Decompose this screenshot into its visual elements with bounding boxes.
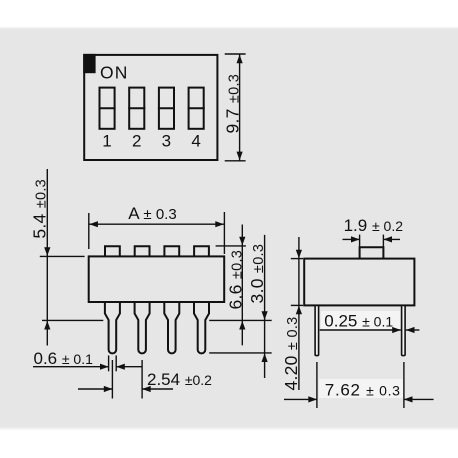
dim 2.54 line right part <box>142 388 173 390</box>
dim 1.9 line left part <box>343 238 360 240</box>
dim 7.62 line left part <box>284 398 317 400</box>
arrow 0.6 right (left-pointing) <box>116 364 125 370</box>
top view: switch 4 <box>189 88 204 129</box>
svg-text:1.9 ± 0.2: 1.9 ± 0.2 <box>344 216 404 235</box>
svg-text:3: 3 <box>162 132 171 151</box>
dim A extension right <box>223 212 225 254</box>
arrow 9.7 bottom (down) <box>237 152 243 161</box>
arrow 2.54 right (left-pointing) <box>142 386 151 392</box>
top view: DIP switch outline <box>84 55 217 160</box>
top view: switch 2 <box>129 88 144 129</box>
dim 0.6 extension right (pin1 right edge) <box>115 355 117 371</box>
dim 2.54 extension left (pin1 center) <box>111 360 113 399</box>
dim A extension left <box>88 213 90 249</box>
dim 0.25 line <box>320 329 401 331</box>
dim 3.0 line <box>264 235 266 378</box>
pin tip level extension right <box>209 352 272 354</box>
dim 1.9 extension right <box>382 235 384 247</box>
dim 7.62 line right part <box>404 398 434 400</box>
front view: pin 4 <box>194 303 209 354</box>
arrow A left <box>89 221 98 227</box>
front view: actuator bump 3 <box>164 246 179 256</box>
arrow 4.20 top (down, at body top) <box>296 250 302 259</box>
svg-text:A ± 0.3: A ± 0.3 <box>128 204 176 223</box>
dim 2.54 extension right (pin2 center) <box>141 360 143 399</box>
arrow 5.4 bottom (up, at seating) <box>44 321 50 330</box>
svg-text:ON: ON <box>100 63 128 83</box>
dim 6.6 extension (actuator top level) <box>216 245 246 247</box>
top view: switch 4 midline <box>188 107 205 109</box>
dim 4.20 extension top <box>291 258 303 260</box>
dim 7.62 extension left (pin center) <box>316 362 318 408</box>
front view: actuator bump 4 <box>194 246 209 256</box>
svg-text:1: 1 <box>102 132 111 151</box>
dim 7.62 extension right (pin center) <box>403 362 405 408</box>
arrow 0.25 at pin left edge (right-pointing) <box>392 327 401 333</box>
arrow 7.62 right (left-pointing) <box>404 396 413 402</box>
side view: actuator bump <box>360 247 384 258</box>
soft edge top of band <box>0 27 458 29</box>
front view: pin 1 <box>105 303 120 354</box>
top view: switch 1 midline <box>99 107 116 109</box>
front view: actuator bump 2 <box>135 246 150 256</box>
dim 1.9 line right part <box>383 238 400 240</box>
dim 9.7 extension tick bottom <box>225 160 246 162</box>
top view: pin1 corner index mark <box>83 54 95 73</box>
arrow 7.62 left (right-pointing) <box>308 396 317 402</box>
arrow 1.9 left (right-pointing) <box>351 236 360 242</box>
soft edge bottom of band <box>0 428 458 430</box>
arrow 6.6 top (down, at bump top) <box>239 237 245 246</box>
arrow 3.0 bottom (up, at pin tip) <box>262 353 268 362</box>
arrow 4.20 bottom (up, at body bottom) <box>296 306 302 315</box>
top view: switch 3 <box>159 88 174 129</box>
svg-text:0.25 ± 0.1: 0.25 ± 0.1 <box>324 311 393 330</box>
dim 6.6 line <box>241 225 243 346</box>
arrow 9.7 top (up) <box>237 55 243 64</box>
arrow 3.0 top (down, at seating) <box>262 311 268 320</box>
dim 9.7 extension tick top <box>225 53 246 55</box>
top view: switch 1 <box>100 88 115 129</box>
dim 5.4 line <box>46 169 48 346</box>
top view: switch 2 midline <box>128 107 145 109</box>
light halo behind 7.62 label <box>319 379 403 398</box>
dim 5.4 extension top (body top level) <box>40 255 85 257</box>
arrow 5.4 top (down, at body top) <box>44 247 50 256</box>
svg-text:2.54 ±0.2: 2.54 ±0.2 <box>147 370 212 389</box>
svg-text:7.62 ± 0.3: 7.62 ± 0.3 <box>325 380 401 399</box>
side view: body <box>304 259 414 306</box>
dim 0.6 line right part <box>116 366 142 368</box>
dim 2.54 line left part <box>78 388 112 390</box>
front view: pin 3 <box>164 303 179 354</box>
seating plane extension left <box>42 319 103 321</box>
light halo behind 0.25 label <box>321 311 400 329</box>
dim 9.7 line <box>239 54 241 161</box>
front view: actuator bump 1 <box>105 246 120 256</box>
svg-text:0.6 ± 0.1: 0.6 ± 0.1 <box>34 349 94 368</box>
arrow 6.6 bottom (up, at seating) <box>239 321 245 330</box>
dim A line <box>89 223 225 225</box>
svg-text:4: 4 <box>191 132 200 151</box>
arrow 2.54 left (right-pointing) <box>104 386 113 392</box>
dim 0.6 line left part <box>33 366 109 368</box>
side view: pin left <box>315 305 319 355</box>
dim 0.6 extension left (pin1 left edge) <box>108 355 110 371</box>
arrow 1.9 right (left-pointing) <box>383 236 392 242</box>
top view: switch 3 midline <box>158 107 175 109</box>
front view: pin 2 <box>135 303 150 354</box>
side view: pin right <box>402 305 406 355</box>
front view: body <box>89 256 225 302</box>
arrow 0.6 left (right-pointing) <box>100 364 109 370</box>
dim 0.25 tail right <box>406 329 420 331</box>
arrow 0.25 at pin right edge (left-pointing) <box>406 327 415 333</box>
svg-text:2: 2 <box>132 132 141 151</box>
arrow A right <box>215 221 224 227</box>
dim 4.20 line <box>298 237 300 390</box>
dim 1.9 extension left <box>359 235 361 247</box>
seating plane extension right <box>209 319 272 321</box>
dim 4.20 extension bottom <box>291 304 303 306</box>
